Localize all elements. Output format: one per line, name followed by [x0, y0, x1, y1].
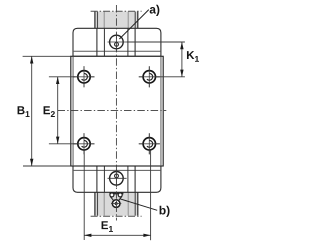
rail bottom chamfer line right: [127, 192, 129, 215]
horizontal centerline: [58, 109, 167, 111]
dimension E2 extension bottom: [49, 143, 78, 145]
end cap top inner line: [73, 50, 161, 52]
rail top chamfer line right: [127, 12, 129, 29]
dimension B1 line: [31, 56, 33, 166]
end cap top: [73, 28, 161, 56]
dimension K1 extension bottom (from hole row): [157, 76, 185, 78]
rail bottom inner edge right: [134, 192, 136, 215]
dimension E2 arrow down: [56, 137, 59, 144]
carriage body: [71, 56, 163, 166]
rail top chamfer line left: [103, 12, 105, 29]
callout a): [150, 5, 160, 16]
dimension B1 extension bottom: [23, 165, 71, 167]
mounting hole bottom-left: [74, 133, 95, 154]
dimension E1 extension right (from bottom-right hole): [150, 150, 152, 240]
dimension K1 line: [181, 42, 183, 77]
label K1: [187, 51, 199, 62]
label E2: [44, 106, 55, 117]
rail chamfer through top cap left: [103, 28, 105, 56]
dimension K1 arrow down: [180, 70, 183, 77]
mounting hole bottom-right: [139, 133, 160, 154]
end cap bottom: [73, 166, 161, 192]
dimension E1 arrow right: [143, 234, 150, 237]
leader line b: [120, 199, 158, 211]
end cap bottom inner line: [73, 169, 161, 171]
rail top outer edge right: [137, 12, 139, 29]
rail edge through bottom cap right: [134, 166, 136, 192]
leader line a: [119, 10, 148, 39]
body inner edge right: [160, 56, 162, 166]
body inner edge left: [72, 56, 74, 166]
rail edge through top cap right: [134, 28, 136, 56]
dimension E2 arrow up: [56, 77, 59, 84]
rail chamfer through bottom cap left: [103, 166, 105, 192]
mounting hole top-left: [74, 66, 95, 87]
dimension E1 line: [84, 234, 150, 236]
rail top outer edge left: [94, 12, 96, 29]
rail bottom chamfer line left: [103, 192, 105, 215]
mounting hole top-right: [139, 66, 160, 87]
rail top break line: [91, 10, 142, 12]
rail bottom outer edge left: [94, 192, 96, 215]
dimension E2 extension top: [49, 76, 75, 78]
dimension E2 line: [57, 77, 59, 144]
dimension E1 arrow left: [84, 234, 91, 237]
rail bottom protrusion fill: [95, 192, 137, 215]
rail top inner edge left: [97, 12, 99, 29]
grease nipple b (bottom, on rail): [109, 193, 123, 208]
rail top inner edge right: [134, 12, 136, 29]
rail chamfer through bottom cap right: [127, 166, 129, 192]
dimension K1 extension top (from lube port): [127, 41, 185, 43]
dimension B1 arrow down: [30, 159, 33, 166]
dimension E1 extension left (from bottom-left hole): [83, 151, 85, 241]
lube port bottom: [108, 170, 127, 188]
label E1: [102, 221, 113, 232]
rail bottom inner edge left: [97, 192, 99, 215]
rail top protrusion fill: [95, 12, 137, 29]
dimension K1 arrow up: [180, 42, 183, 49]
lube port top (feature a): [108, 33, 127, 51]
vertical centerline: [115, 5, 117, 221]
rail bottom outer edge right: [137, 192, 139, 215]
dimension B1 extension top: [23, 55, 71, 57]
rail bottom break line: [91, 215, 142, 217]
label B1: [18, 106, 30, 117]
rail chamfer through top cap right: [127, 28, 129, 56]
dimension B1 arrow up: [30, 56, 33, 63]
callout b): [160, 206, 170, 217]
rail edge through bottom cap left: [96, 166, 98, 192]
rail edge through top cap left: [96, 28, 98, 56]
